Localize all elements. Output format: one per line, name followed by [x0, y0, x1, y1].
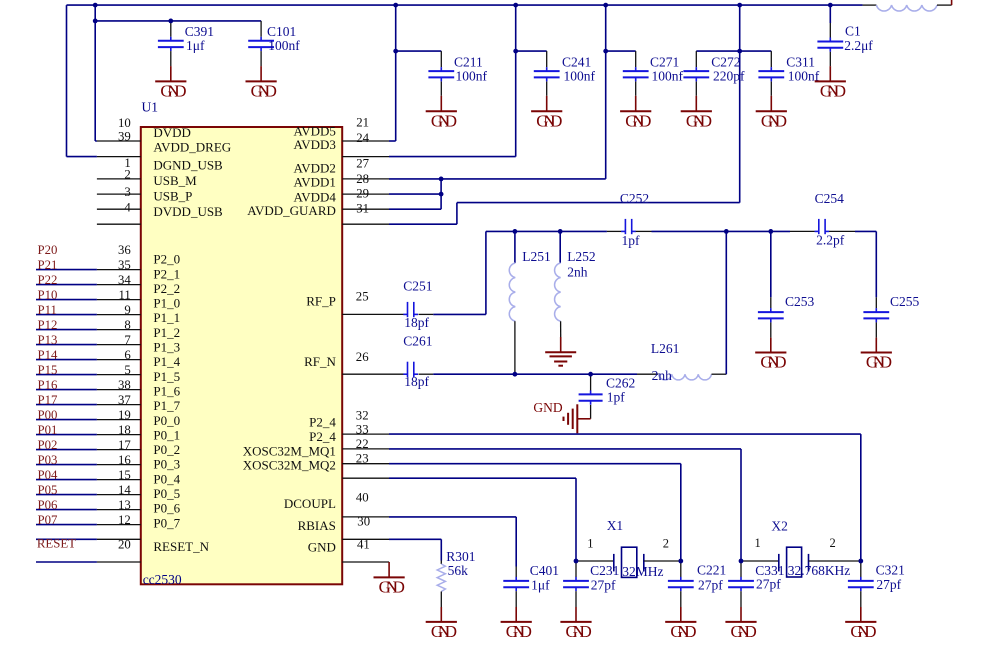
svg-text:P1_6: P1_6	[153, 383, 180, 398]
svg-text:AVDD_GUARD: AVDD_GUARD	[247, 203, 336, 218]
capacitor C271	[623, 51, 684, 96]
junction	[393, 3, 398, 8]
pin number 25	[356, 290, 369, 304]
svg-text:RBIAS: RBIAS	[298, 518, 336, 533]
capacitor C261 (series on RF_N)	[342, 333, 433, 389]
junction	[737, 49, 742, 54]
svg-text:P2_0: P2_0	[153, 252, 180, 267]
pin 31 stub	[342, 208, 389, 210]
svg-text:AVDD_DREG: AVDD_DREG	[153, 140, 231, 155]
svg-text:11: 11	[118, 288, 130, 302]
pin number 4	[124, 201, 131, 215]
svg-text:P2_4: P2_4	[309, 429, 336, 444]
svg-text:26: 26	[356, 350, 369, 364]
svg-text:2: 2	[663, 537, 669, 551]
pin 30 stub	[342, 516, 389, 518]
capacitor C331	[728, 561, 784, 607]
pin number 10	[118, 116, 131, 130]
pin number 21	[356, 116, 369, 130]
wire L261 to rail	[725, 231, 727, 374]
capacitor C251 (series on RF_P)	[342, 278, 433, 330]
pin number 40	[356, 491, 369, 505]
svg-text:GND: GND	[761, 111, 787, 130]
capacitor C321	[848, 561, 905, 607]
junction	[439, 192, 444, 197]
svg-text:C254: C254	[815, 191, 845, 206]
svg-text:RF_P: RF_P	[306, 293, 336, 308]
svg-text:P1_0: P1_0	[153, 296, 180, 311]
earth ground at C262 (rotated)	[564, 404, 591, 433]
pin 24 stub	[342, 140, 389, 142]
port P22 wire to pin 34	[36, 273, 141, 287]
svg-text:GND: GND	[760, 353, 786, 372]
svg-text:P20: P20	[38, 243, 58, 257]
wire branch to C271	[606, 50, 636, 52]
svg-text:X1: X1	[607, 518, 624, 533]
resistor R301	[437, 549, 475, 607]
svg-text:RESET_N: RESET_N	[153, 539, 209, 554]
port P07 wire to pin 12	[36, 513, 141, 527]
wire drop to pin 28	[389, 5, 606, 179]
svg-text:GND: GND	[536, 111, 562, 130]
svg-text:P1_4: P1_4	[153, 354, 180, 369]
inductor L251	[509, 231, 551, 374]
capacitor C254 (series, on RF rail)	[790, 191, 855, 247]
junction	[768, 229, 773, 234]
svg-text:1pf: 1pf	[607, 389, 626, 404]
svg-text:3: 3	[124, 185, 130, 199]
svg-text:DCOUPL: DCOUPL	[284, 496, 336, 511]
svg-text:USB_M: USB_M	[153, 173, 197, 188]
svg-text:L252: L252	[567, 249, 596, 264]
svg-text:P10: P10	[38, 288, 58, 302]
svg-text:22: 22	[356, 437, 369, 451]
wire RF rail	[486, 230, 876, 232]
svg-text:33: 33	[356, 423, 369, 437]
svg-text:100nf: 100nf	[652, 69, 684, 84]
junction	[93, 19, 98, 24]
svg-text:2nh: 2nh	[652, 368, 673, 383]
svg-text:P06: P06	[38, 498, 59, 512]
ground below C331	[725, 607, 756, 641]
svg-text:27pf: 27pf	[698, 578, 723, 593]
pin number 1	[124, 156, 130, 170]
svg-text:32MHz: 32MHz	[622, 564, 663, 579]
svg-text:GND: GND	[160, 81, 186, 100]
net label GND near C262	[533, 400, 562, 415]
wire RF_P feed	[433, 231, 486, 314]
svg-text:18: 18	[118, 423, 131, 437]
capacitor C272	[683, 51, 745, 96]
svg-text:10: 10	[118, 116, 131, 130]
svg-text:C251: C251	[403, 278, 432, 293]
svg-text:GND: GND	[820, 81, 846, 100]
chip left pin names	[153, 125, 231, 554]
pin number 41	[357, 538, 370, 552]
svg-text:R301: R301	[446, 549, 475, 564]
crystal X1	[578, 518, 679, 579]
junction	[737, 3, 742, 8]
ground below C391	[155, 66, 186, 100]
wire RBIAS pin 30 to C401	[389, 517, 516, 567]
svg-text:C231: C231	[590, 563, 619, 578]
junction	[724, 229, 729, 234]
wire branch to C241	[516, 50, 547, 52]
svg-text:C211: C211	[454, 54, 483, 69]
svg-text:29: 29	[356, 187, 369, 201]
ground below C241	[531, 96, 562, 131]
svg-text:27: 27	[356, 156, 369, 170]
wire drop to pin 24	[389, 5, 396, 141]
wire unlabeled bottom-left pin	[36, 561, 141, 563]
svg-text:20: 20	[118, 537, 131, 551]
svg-text:P1_5: P1_5	[153, 369, 180, 384]
wire pin 22 to X2 pin1	[389, 449, 741, 561]
pin 27 stub	[342, 156, 389, 158]
svg-text:1μf: 1μf	[186, 38, 205, 53]
pin number 3	[124, 185, 130, 199]
svg-text:AVDD3: AVDD3	[294, 137, 336, 152]
svg-text:40: 40	[356, 491, 369, 505]
svg-text:X2: X2	[771, 519, 788, 534]
junction	[393, 49, 398, 54]
svg-text:C331: C331	[755, 563, 784, 578]
junction	[513, 49, 518, 54]
port P02 wire to pin 17	[36, 438, 141, 452]
svg-text:C272: C272	[711, 54, 740, 69]
svg-text:GND: GND	[850, 622, 876, 641]
svg-text:P0_0: P0_0	[153, 413, 180, 428]
svg-text:38: 38	[118, 378, 131, 392]
svg-text:USB_P: USB_P	[153, 189, 192, 204]
ground below C1	[815, 66, 846, 100]
svg-text:DVDD_USB: DVDD_USB	[153, 204, 223, 219]
capacitor C255	[863, 231, 919, 337]
svg-text:C255: C255	[890, 294, 920, 309]
wire pin 33 to X2 pin2	[389, 434, 861, 561]
svg-text:C271: C271	[650, 54, 679, 69]
svg-text:P1_1: P1_1	[153, 310, 180, 325]
svg-text:P1_2: P1_2	[153, 325, 180, 340]
port P16 wire to pin 38	[36, 378, 141, 392]
wire drop to pin 27	[389, 5, 516, 157]
svg-text:24: 24	[356, 131, 369, 145]
junction	[513, 372, 518, 377]
pin number 26	[356, 350, 369, 364]
pin number 29	[356, 187, 369, 201]
capacitor C391	[158, 21, 214, 66]
wire branch to C211	[396, 50, 442, 52]
pin 22 stub	[342, 448, 389, 450]
svg-text:4: 4	[124, 201, 131, 215]
svg-text:GND: GND	[431, 622, 457, 641]
svg-text:XOSC32M_MQ2: XOSC32M_MQ2	[243, 458, 336, 473]
capacitor C1	[817, 5, 873, 66]
svg-text:2.2pf: 2.2pf	[816, 232, 845, 247]
svg-text:C262: C262	[606, 375, 635, 390]
junction	[858, 559, 863, 564]
svg-text:GND: GND	[251, 81, 277, 100]
pin number 23	[356, 452, 369, 466]
svg-text:C311: C311	[786, 54, 815, 69]
wire chip pad to ground	[342, 561, 389, 563]
svg-text:P0_7: P0_7	[153, 515, 180, 530]
svg-text:2.2μf: 2.2μf	[844, 38, 873, 53]
wire GND pin 41 to R301	[389, 539, 441, 560]
pin 3 stub	[97, 193, 141, 195]
inductor L261	[651, 341, 726, 383]
svg-text:C241: C241	[562, 54, 591, 69]
crystal X2	[743, 519, 859, 578]
svg-text:GND: GND	[670, 622, 696, 641]
svg-text:P13: P13	[38, 333, 58, 347]
svg-text:P03: P03	[38, 453, 58, 467]
junction	[513, 229, 518, 234]
svg-text:220pf: 220pf	[713, 69, 745, 84]
svg-text:C252: C252	[620, 191, 649, 206]
svg-text:L251: L251	[522, 249, 551, 264]
port P03 wire to pin 16	[36, 453, 141, 467]
svg-text:35: 35	[118, 258, 131, 272]
pin guard stub	[342, 223, 389, 225]
svg-text:AVDD5: AVDD5	[294, 123, 336, 138]
inductor L1 (top right, in series on rail)	[863, 5, 952, 11]
svg-text:P05: P05	[38, 483, 58, 497]
svg-text:P0_4: P0_4	[153, 471, 180, 486]
svg-text:P22: P22	[38, 273, 58, 287]
junction	[739, 559, 744, 564]
svg-text:DVDD: DVDD	[153, 125, 191, 140]
pin number 2	[124, 168, 130, 182]
svg-text:7: 7	[124, 333, 131, 347]
svg-text:P0_6: P0_6	[153, 501, 180, 516]
svg-text:P0_2: P0_2	[153, 442, 180, 457]
port P14 wire to pin 6	[36, 348, 141, 362]
svg-text:9: 9	[124, 303, 130, 317]
ground at chip pad	[374, 562, 405, 596]
svg-text:1pf: 1pf	[622, 233, 641, 248]
svg-text:P07: P07	[38, 513, 59, 527]
ground below C321	[845, 607, 876, 641]
svg-text:100nf: 100nf	[268, 38, 300, 53]
svg-text:18pf: 18pf	[404, 374, 429, 389]
svg-text:C321: C321	[876, 563, 905, 578]
junction	[828, 3, 833, 8]
pin 39 stub	[97, 140, 141, 142]
svg-text:GND: GND	[866, 353, 892, 372]
port P13 wire to pin 7	[36, 333, 141, 347]
svg-text:P15: P15	[38, 363, 58, 377]
pin 4 stub	[97, 208, 141, 210]
svg-text:100nf: 100nf	[456, 69, 488, 84]
svg-text:6: 6	[124, 348, 131, 362]
junction	[93, 3, 98, 8]
junction	[558, 229, 563, 234]
port P01 wire to pin 18	[36, 423, 141, 437]
port RESET wire to pin 20	[36, 537, 141, 552]
pin (pad) top-left stub	[97, 223, 141, 225]
svg-text:GND: GND	[533, 400, 562, 415]
svg-text:AVDD2: AVDD2	[294, 161, 336, 176]
svg-text:34: 34	[118, 273, 131, 287]
wire stub to off-sheet (maroon)	[951, 0, 953, 5]
chip U1 designator	[142, 100, 159, 115]
wire branch C272-C311	[696, 50, 771, 52]
svg-text:28: 28	[356, 172, 369, 186]
svg-text:C221: C221	[697, 563, 726, 578]
svg-text:P0_3: P0_3	[153, 457, 180, 472]
port P00 wire to pin 19	[36, 408, 141, 422]
pin number 31	[356, 202, 369, 216]
capacitor C231	[563, 561, 619, 607]
svg-text:1: 1	[755, 536, 761, 550]
capacitor C311	[758, 51, 819, 96]
svg-text:P1_7: P1_7	[153, 398, 180, 413]
svg-text:GND: GND	[566, 622, 592, 641]
ground below C211	[426, 96, 457, 131]
ground below C101	[246, 66, 277, 100]
svg-text:GND: GND	[625, 111, 651, 130]
pin number 24	[356, 131, 369, 145]
junction	[574, 559, 579, 564]
pin number 28	[356, 172, 369, 186]
svg-text:cc2530: cc2530	[143, 572, 182, 587]
svg-text:13: 13	[118, 498, 131, 512]
svg-text:37: 37	[118, 393, 131, 407]
svg-text:21: 21	[356, 116, 369, 130]
svg-text:41: 41	[357, 538, 370, 552]
svg-text:RESET: RESET	[37, 537, 76, 551]
svg-text:39: 39	[118, 130, 131, 144]
svg-text:36: 36	[118, 243, 131, 257]
capacitor C221	[668, 561, 726, 607]
port label P20 / pin 36 (unconnected)	[38, 243, 132, 257]
svg-text:GND: GND	[506, 622, 532, 641]
svg-text:31: 31	[356, 202, 369, 216]
ground below C311	[756, 96, 787, 131]
port P12 wire to pin 8	[36, 318, 141, 332]
port P04 wire to pin 15	[36, 468, 141, 482]
junction	[168, 19, 173, 24]
ground below C272	[681, 96, 712, 131]
inductor L252	[555, 231, 596, 337]
svg-text:P1_3: P1_3	[153, 340, 180, 355]
pin 23 stub	[342, 463, 389, 465]
svg-text:U1: U1	[142, 100, 159, 115]
port P05 wire to pin 14	[36, 483, 141, 497]
svg-text:5: 5	[124, 363, 130, 377]
svg-text:P0_1: P0_1	[153, 427, 180, 442]
svg-text:19: 19	[118, 408, 131, 422]
earth ground below L252	[545, 337, 576, 366]
pin number 32	[356, 408, 369, 422]
capacitor C101	[248, 21, 300, 66]
wire top VDD rail	[67, 4, 863, 6]
chip U1 body (cc2530)	[141, 127, 342, 584]
wire left drop to pin 1	[67, 5, 97, 157]
wire second rail to C391/C101	[95, 20, 261, 22]
junction	[588, 372, 593, 377]
svg-text:17: 17	[118, 438, 131, 452]
ground below C401	[501, 607, 532, 641]
chip right pin names	[243, 123, 337, 554]
capacitor C401	[503, 563, 559, 607]
ground below C271	[620, 96, 651, 131]
svg-text:27pf: 27pf	[591, 578, 616, 593]
pin 29 stub	[342, 193, 389, 195]
wire RF_N net	[433, 373, 658, 375]
svg-text:32.768KHz: 32.768KHz	[788, 563, 851, 578]
svg-text:16: 16	[118, 453, 131, 467]
svg-text:C391: C391	[185, 24, 214, 39]
pin 33 stub	[342, 433, 389, 435]
junction	[603, 3, 608, 8]
ground below R301	[426, 607, 457, 641]
svg-text:P02: P02	[38, 438, 58, 452]
svg-text:P04: P04	[38, 468, 59, 482]
wire to X1 pin1	[389, 478, 576, 561]
svg-text:14: 14	[118, 483, 131, 497]
svg-text:XOSC32M_MQ1: XOSC32M_MQ1	[243, 443, 336, 458]
pin 2 stub	[97, 178, 141, 180]
port P17 wire to pin 37	[36, 393, 141, 407]
capacitor C241	[534, 51, 596, 96]
pin 41 stub	[342, 538, 389, 540]
svg-text:C401: C401	[530, 563, 559, 578]
port P15 wire to pin 5	[36, 363, 141, 377]
junction	[603, 49, 608, 54]
svg-text:P0_5: P0_5	[153, 486, 180, 501]
svg-text:RF_N: RF_N	[304, 354, 336, 369]
svg-text:1: 1	[587, 537, 593, 551]
svg-text:GND: GND	[731, 622, 757, 641]
svg-text:GND: GND	[431, 111, 457, 130]
svg-text:27pf: 27pf	[876, 577, 901, 592]
pin number 39	[118, 130, 131, 144]
svg-text:8: 8	[124, 318, 130, 332]
svg-text:AVDD1: AVDD1	[294, 175, 336, 190]
svg-text:P2_1: P2_1	[153, 266, 180, 281]
net label C252	[620, 191, 649, 206]
pin 1 stub	[97, 156, 141, 158]
wire AVDD tie pins 28-29-31	[389, 179, 441, 209]
svg-text:P01: P01	[38, 423, 58, 437]
svg-text:27pf: 27pf	[756, 577, 781, 592]
svg-text:C1: C1	[845, 23, 861, 38]
pin number 33	[356, 423, 369, 437]
svg-text:C101: C101	[267, 24, 296, 39]
wire pin 23 to X1 pin2	[389, 464, 681, 561]
svg-text:P17: P17	[38, 393, 59, 407]
svg-text:P00: P00	[38, 408, 58, 422]
capacitor C253	[758, 231, 815, 337]
svg-text:AVDD4: AVDD4	[294, 189, 337, 204]
svg-text:30: 30	[357, 515, 370, 529]
svg-text:C253: C253	[785, 294, 815, 309]
svg-text:DGND_USB: DGND_USB	[153, 158, 223, 173]
port P11 wire to pin 9	[36, 303, 141, 317]
ground below C231	[560, 607, 591, 641]
svg-text:15: 15	[118, 468, 131, 482]
svg-text:P16: P16	[38, 378, 59, 392]
pin number 22	[356, 437, 369, 451]
svg-text:100nf: 100nf	[564, 69, 596, 84]
svg-text:P14: P14	[38, 348, 59, 362]
svg-text:P2_2: P2_2	[153, 281, 180, 296]
svg-text:2nh: 2nh	[567, 265, 588, 280]
svg-text:23: 23	[356, 452, 369, 466]
svg-text:GND: GND	[686, 111, 712, 130]
